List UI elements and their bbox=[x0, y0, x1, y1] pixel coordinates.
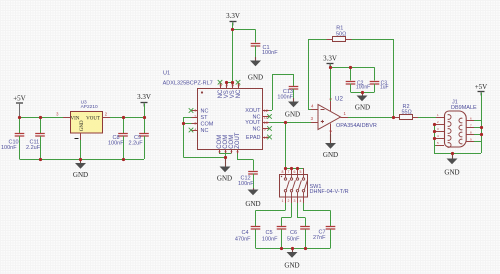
svg-text:8: 8 bbox=[470, 131, 472, 135]
svg-text:27nF: 27nF bbox=[313, 235, 326, 241]
svg-text:U2: U2 bbox=[335, 96, 343, 103]
svg-text:3: 3 bbox=[311, 116, 314, 121]
svg-text:GND: GND bbox=[285, 111, 300, 119]
svg-text:AP2210: AP2210 bbox=[81, 104, 98, 110]
svg-text:C4: C4 bbox=[241, 230, 248, 236]
svg-text:4: 4 bbox=[311, 103, 314, 108]
svg-text:9: 9 bbox=[470, 138, 472, 142]
svg-text:1: 1 bbox=[344, 111, 347, 116]
svg-text:470nF: 470nF bbox=[235, 236, 251, 242]
svg-text:U1: U1 bbox=[163, 70, 170, 76]
svg-text:5: 5 bbox=[300, 170, 302, 174]
svg-text:3.3V: 3.3V bbox=[137, 93, 151, 101]
svg-text:50nF: 50nF bbox=[287, 236, 300, 242]
svg-text:GND: GND bbox=[355, 103, 370, 111]
svg-text:3: 3 bbox=[437, 127, 439, 131]
svg-text:100nF: 100nF bbox=[108, 140, 124, 146]
svg-text:EPAD: EPAD bbox=[246, 135, 261, 141]
svg-text:ZOUT: ZOUT bbox=[235, 132, 241, 149]
svg-text:1: 1 bbox=[282, 199, 284, 203]
svg-text:100nF: 100nF bbox=[238, 181, 254, 187]
svg-text:C5: C5 bbox=[265, 230, 272, 236]
svg-text:XOUT: XOUT bbox=[245, 108, 261, 114]
svg-text:GND: GND bbox=[323, 151, 338, 159]
svg-text:+5V: +5V bbox=[475, 83, 488, 91]
svg-text:COM: COM bbox=[201, 122, 214, 128]
svg-text:2: 2 bbox=[437, 120, 439, 124]
svg-text:5: 5 bbox=[218, 151, 222, 153]
svg-text:4: 4 bbox=[194, 127, 197, 132]
svg-text:VIN: VIN bbox=[71, 116, 80, 121]
svg-text:NC: NC bbox=[236, 89, 242, 98]
svg-text:8: 8 bbox=[236, 151, 240, 153]
svg-text:R1: R1 bbox=[336, 26, 343, 32]
svg-text:2.2uF: 2.2uF bbox=[26, 145, 41, 151]
svg-text:ADXL325BCPZ-RL7: ADXL325BCPZ-RL7 bbox=[163, 81, 213, 87]
svg-text:GND: GND bbox=[73, 171, 88, 179]
svg-text:12: 12 bbox=[264, 108, 269, 113]
svg-text:3: 3 bbox=[294, 199, 296, 203]
svg-text:2: 2 bbox=[194, 114, 197, 119]
svg-text:17: 17 bbox=[264, 135, 269, 140]
svg-text:NC: NC bbox=[253, 127, 261, 133]
svg-text:1: 1 bbox=[437, 113, 439, 117]
svg-text:3: 3 bbox=[56, 112, 59, 117]
svg-text:5: 5 bbox=[329, 98, 333, 100]
svg-text:2: 2 bbox=[105, 112, 108, 117]
svg-text:GND: GND bbox=[217, 175, 232, 183]
svg-text:7: 7 bbox=[230, 151, 234, 153]
svg-text:NC: NC bbox=[201, 128, 209, 134]
svg-text:100nF: 100nF bbox=[356, 85, 370, 91]
svg-text:OPA354AIDBVR: OPA354AIDBVR bbox=[336, 123, 377, 129]
svg-text:10: 10 bbox=[264, 120, 269, 125]
svg-text:100nF: 100nF bbox=[262, 50, 278, 56]
svg-text:+5V: +5V bbox=[13, 95, 26, 103]
svg-text:GND: GND bbox=[248, 74, 263, 82]
svg-text:DB9MALE: DB9MALE bbox=[451, 105, 477, 111]
svg-text:GND: GND bbox=[245, 200, 260, 208]
svg-text:6: 6 bbox=[294, 170, 296, 174]
svg-text:7: 7 bbox=[470, 124, 472, 128]
svg-text:8: 8 bbox=[282, 170, 284, 174]
svg-text:16: 16 bbox=[237, 83, 241, 87]
svg-text:50Ω: 50Ω bbox=[336, 32, 346, 38]
svg-text:YOUT: YOUT bbox=[245, 120, 261, 126]
svg-text:100nF: 100nF bbox=[277, 95, 293, 101]
svg-text:100nF: 100nF bbox=[262, 236, 278, 242]
svg-text:DHNF-04-V-T/R: DHNF-04-V-T/R bbox=[310, 189, 349, 195]
svg-text:GND: GND bbox=[444, 169, 459, 177]
svg-text:3.3V: 3.3V bbox=[323, 55, 337, 63]
svg-text:5: 5 bbox=[437, 141, 439, 145]
svg-text:NC: NC bbox=[201, 109, 209, 115]
svg-text:GND: GND bbox=[80, 120, 85, 131]
svg-text:1uF: 1uF bbox=[380, 85, 389, 91]
svg-text:3.3V: 3.3V bbox=[226, 12, 240, 20]
svg-text:6: 6 bbox=[224, 151, 228, 153]
svg-text:7: 7 bbox=[288, 170, 290, 174]
svg-text:GND: GND bbox=[284, 261, 299, 269]
svg-text:13: 13 bbox=[219, 83, 223, 87]
svg-text:ST: ST bbox=[201, 115, 209, 121]
svg-text:6: 6 bbox=[470, 117, 472, 121]
svg-text:4: 4 bbox=[437, 134, 439, 138]
svg-text:2: 2 bbox=[288, 199, 290, 203]
svg-text:4: 4 bbox=[300, 199, 302, 203]
svg-text:2: 2 bbox=[329, 130, 333, 132]
svg-text:55Ω: 55Ω bbox=[402, 110, 412, 116]
svg-text:VOUT: VOUT bbox=[86, 116, 100, 121]
svg-text:2.2uF: 2.2uF bbox=[129, 140, 144, 146]
svg-text:100nF: 100nF bbox=[1, 145, 17, 151]
svg-text:C6: C6 bbox=[290, 230, 297, 236]
